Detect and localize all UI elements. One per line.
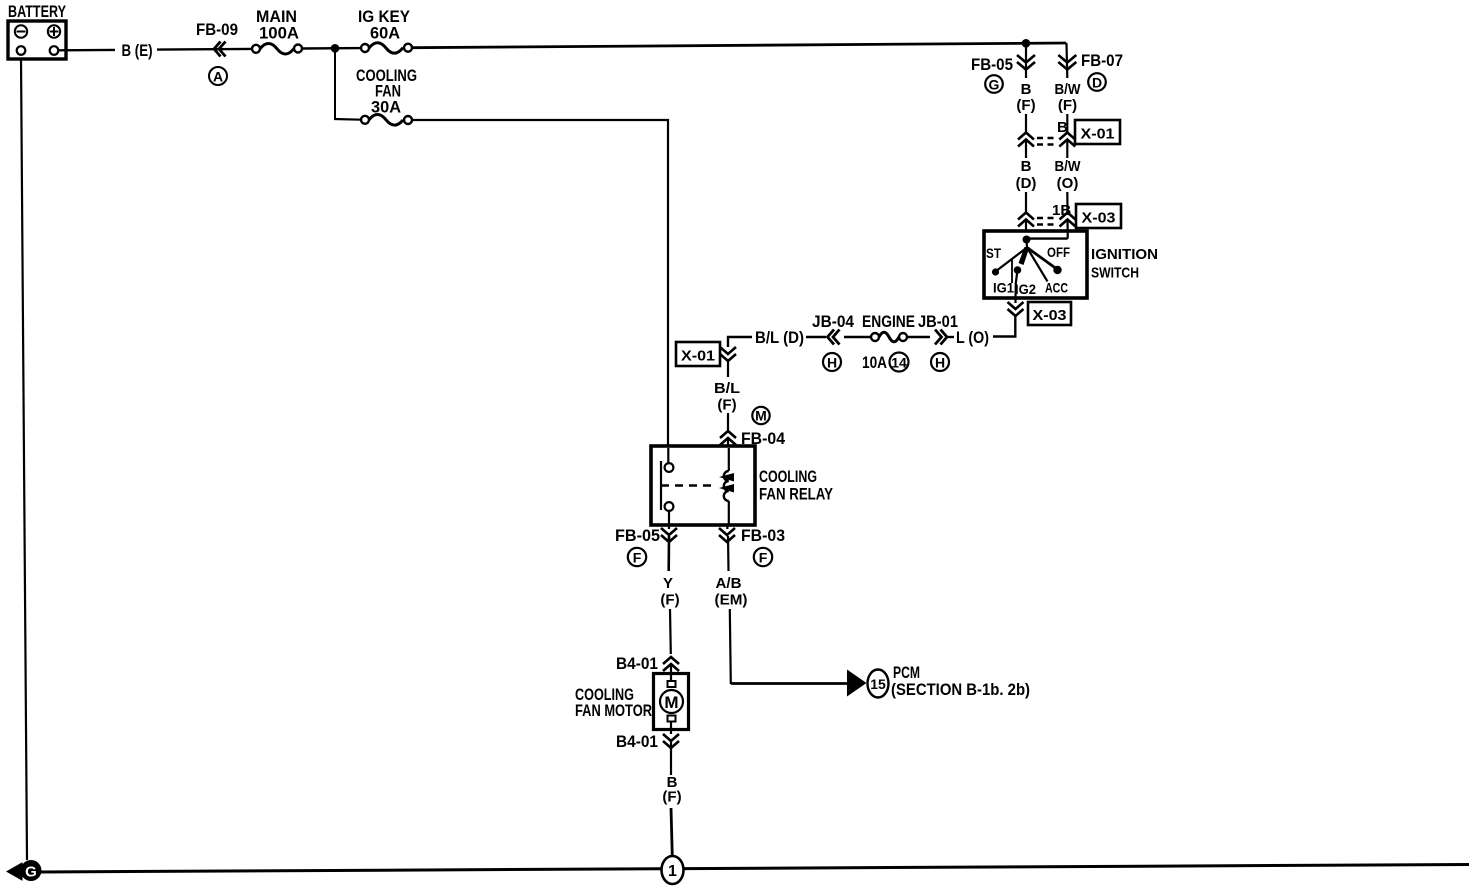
wire label A/B (EM)	[715, 536, 748, 684]
wire label B/L (F)	[714, 380, 770, 431]
wire battery negative to ground (left vertical)	[21, 59, 27, 860]
svg-text:SWITCH: SWITCH	[1091, 265, 1139, 282]
svg-text:(F): (F)	[1058, 97, 1077, 114]
connector X-03	[1018, 202, 1121, 232]
wire label B (F) bottom	[662, 774, 681, 857]
fuse ENGINE 10A	[844, 312, 915, 372]
wire label B/L (D)	[728, 328, 804, 347]
motor M1 COOLING FAN MOTOR	[575, 674, 689, 735]
svg-text:FB-05: FB-05	[615, 526, 660, 545]
svg-text:(D): (D)	[1016, 175, 1037, 192]
connector FB-04	[720, 429, 786, 448]
wire label Y (F)	[660, 536, 679, 654]
svg-text:G: G	[989, 77, 1000, 93]
wire 30A fuse to cooling fan relay	[412, 120, 668, 447]
node junction top right	[1022, 39, 1031, 48]
wire label B/W (F)	[1055, 81, 1082, 132]
svg-text:14: 14	[891, 355, 907, 371]
svg-text:(F): (F)	[1016, 97, 1035, 114]
wire label B (D)	[1016, 158, 1037, 212]
svg-text:M: M	[664, 693, 678, 712]
wire ignition switch to L (O)	[993, 314, 1015, 337]
svg-text:X-01: X-01	[681, 348, 715, 365]
svg-text:Y: Y	[663, 575, 673, 592]
ignition switch U1	[984, 231, 1158, 299]
svg-text:BATTERY: BATTERY	[8, 2, 66, 21]
svg-text:FB-05: FB-05	[971, 55, 1013, 74]
wire to PCM with arrow	[731, 670, 867, 697]
svg-text:1: 1	[668, 863, 677, 880]
svg-text:FAN MOTOR: FAN MOTOR	[575, 701, 652, 720]
node 15 PCM reference	[868, 663, 1031, 699]
svg-text:B4-01: B4-01	[616, 732, 658, 751]
svg-text:ACC: ACC	[1045, 280, 1068, 296]
svg-text:FB-09: FB-09	[196, 20, 238, 39]
svg-text:(F): (F)	[662, 789, 681, 806]
svg-text:IGNITION: IGNITION	[1091, 246, 1158, 263]
connector JB-04	[806, 312, 854, 371]
svg-text:(O): (O)	[1057, 175, 1079, 192]
svg-text:B (E): B (E)	[122, 41, 153, 60]
svg-text:X-01: X-01	[1081, 126, 1115, 143]
svg-text:(SECTION B-1b. 2b): (SECTION B-1b. 2b)	[891, 680, 1030, 699]
connector B4-01 below motor	[616, 732, 679, 775]
svg-text:FB-07: FB-07	[1081, 51, 1123, 70]
connector JB-01	[907, 312, 958, 371]
svg-text:ST: ST	[986, 245, 1001, 261]
ground bus wire (bottom)	[41, 865, 1469, 873]
svg-text:(F): (F)	[660, 592, 679, 609]
wire label B (F)	[1016, 81, 1035, 132]
svg-text:B: B	[1021, 158, 1032, 175]
battery BATTERY	[8, 2, 66, 59]
svg-text:15: 15	[870, 676, 886, 692]
connector X-01 left	[676, 342, 736, 377]
wire battery positive B(E) to fuse block	[58, 41, 252, 60]
connector X-03 below ignition switch	[1008, 299, 1072, 325]
svg-text:(F): (F)	[717, 397, 736, 414]
wire IG KEY fuse to top right corner	[412, 43, 1066, 48]
svg-text:10A: 10A	[862, 353, 887, 372]
wire top right corner down to FB-07	[1066, 43, 1067, 78]
svg-text:A/B: A/B	[716, 575, 742, 592]
wire label L (O)	[948, 328, 989, 347]
svg-text:H: H	[935, 355, 945, 371]
wire label B/W (O)	[1055, 158, 1082, 212]
connector X-01	[1018, 119, 1120, 158]
svg-text:(EM): (EM)	[715, 592, 748, 609]
svg-text:JB-01: JB-01	[918, 312, 958, 331]
svg-text:60A: 60A	[370, 24, 400, 43]
svg-text:D: D	[1092, 75, 1102, 91]
connector FB-09	[196, 20, 238, 85]
svg-text:COOLING: COOLING	[759, 467, 817, 486]
svg-text:B/L: B/L	[714, 380, 740, 397]
svg-text:JB-04: JB-04	[812, 312, 854, 331]
svg-text:FB-03: FB-03	[741, 526, 785, 545]
svg-text:M: M	[755, 408, 767, 424]
svg-text:FAN RELAY: FAN RELAY	[759, 485, 834, 504]
svg-text:X-03: X-03	[1082, 210, 1116, 227]
svg-text:F: F	[759, 550, 768, 566]
connector B4-01 above motor	[616, 654, 679, 674]
svg-text:OFF: OFF	[1047, 244, 1070, 260]
svg-text:IG2: IG2	[1015, 281, 1036, 297]
svg-text:B/L (D): B/L (D)	[755, 328, 804, 347]
fuse COOLING FAN 30A	[334, 66, 417, 125]
svg-text:B: B	[1021, 81, 1032, 98]
node junction main bus / cooling fan branch	[331, 44, 340, 53]
svg-text:G: G	[25, 864, 37, 881]
svg-text:X-03: X-03	[1033, 307, 1067, 324]
svg-text:H: H	[827, 355, 837, 371]
wire branch to cooling fan fuse	[334, 48, 336, 119]
ground G	[7, 860, 42, 881]
svg-text:B/W: B/W	[1055, 158, 1082, 175]
svg-text:A: A	[213, 69, 223, 85]
wire fuse MAIN to fuse IG KEY	[302, 47, 361, 50]
ground node 1	[662, 856, 684, 884]
fuse MAIN 100A	[252, 7, 302, 54]
connector FB-05 below relay	[615, 525, 677, 566]
connector FB-05	[971, 45, 1035, 93]
svg-text:ENGINE: ENGINE	[862, 312, 915, 331]
svg-text:B/W: B/W	[1055, 81, 1082, 98]
svg-text:F: F	[633, 550, 642, 566]
svg-text:IG1: IG1	[993, 280, 1014, 296]
fuse IG KEY 60A	[358, 7, 412, 53]
svg-text:100A: 100A	[259, 24, 299, 43]
connector FB-03	[719, 525, 785, 566]
connector FB-07	[1058, 51, 1123, 91]
relay K1 COOLING FAN RELAY	[651, 446, 834, 525]
svg-text:B4-01: B4-01	[616, 654, 658, 673]
svg-text:L (O): L (O)	[956, 328, 989, 347]
